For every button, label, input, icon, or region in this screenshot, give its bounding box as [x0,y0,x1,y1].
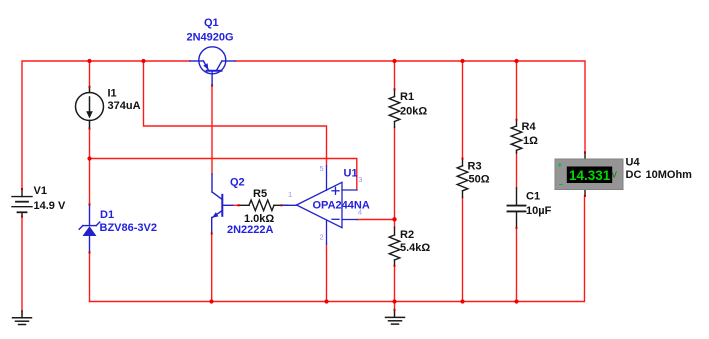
transistor Q2 [212,174,233,234]
node top rail R3 [460,59,464,63]
wire op-amp -input to feedback node [357,219,395,221]
svg-text:OPA244NA: OPA244NA [313,200,370,212]
svg-text:5.4kΩ: 5.4kΩ [400,242,430,254]
node bottom rail R3 [460,299,464,303]
node zener reference [87,156,91,160]
svg-text:+: + [558,161,563,170]
wire V+ feed to op-amp pin 5 [144,61,327,166]
svg-text:Q1: Q1 [204,17,219,29]
pin tick Q1 base [211,85,213,87]
svg-text:R3: R3 [468,161,482,173]
wire Q2 emitter to bottom rail [211,233,213,302]
wire top rail right of Q1 to multimeter top [235,61,585,153]
resistor R1 [389,89,400,128]
ground (left, battery) [13,311,32,325]
pin tick battery top [21,188,23,190]
node top rail R1 [392,59,396,63]
pin tick I1 bottom [89,128,91,130]
wire R1 bottom to feedback node [394,127,396,220]
svg-text:D1: D1 [100,209,114,221]
wire R2 bottom to bottom rail [394,266,396,302]
svg-text:14.9 V: 14.9 V [34,200,66,212]
wire Q1 base to Q2 collector [211,85,213,174]
pin tick R2 bottom [394,265,396,267]
pin tick meter top [584,152,586,154]
pin tick D1 top [89,204,91,206]
svg-text:1Ω: 1Ω [523,135,538,147]
node top rail I1 [87,59,91,63]
wire R3 top stub [462,61,464,158]
wire ground stub below bottom rail [394,302,396,311]
pin tick R3 top [462,158,464,160]
svg-text:R5: R5 [253,188,267,200]
svg-text:2: 2 [320,233,324,242]
wire feedback node to R2 [394,220,396,228]
zener diode D1 [79,204,100,253]
pin tick C1 bottom [516,227,518,229]
pin tick Q2 emitter [211,233,213,235]
resistor R4 [511,120,522,154]
wire R3 bottom stub [462,197,464,301]
wire I1 bottom to D1 top [89,128,91,204]
svg-text:1.0kΩ: 1.0kΩ [244,213,274,225]
svg-text:2N4920G: 2N4920G [187,32,234,44]
node bottom rail Q2 emitter [209,299,213,303]
svg-text:5: 5 [320,164,324,173]
battery V1 [12,189,32,217]
svg-text:20kΩ: 20kΩ [400,106,427,118]
wire Q2 base to R5 [232,204,240,206]
pin tick R5 left [238,204,240,206]
svg-text:10MOhm: 10MOhm [646,169,693,181]
svg-text:C1: C1 [526,191,540,203]
svg-text:I1: I1 [108,88,117,100]
svg-text:−: − [559,180,564,189]
resistor R2 [389,227,400,265]
pin tick D1 bottom [89,252,91,254]
wire C1 bottom stub [516,228,518,302]
wire D1 bottom down [89,252,91,302]
multimeter U4 [555,152,623,196]
node feedback R1 R2 [392,217,396,221]
pin tick op-amp output [281,204,283,206]
wire top-left rail and left rail [22,61,190,189]
pin tick ground stub [394,309,396,311]
node bottom rail op-amp pin 2 [324,299,328,303]
capacitor C1 [508,188,526,228]
current source I1 [76,87,104,129]
svg-text:10µF: 10µF [526,205,552,217]
svg-text:U1: U1 [344,168,358,180]
svg-text:R4: R4 [522,121,537,133]
svg-text:14.331: 14.331 [569,168,611,183]
svg-text:50Ω: 50Ω [469,174,490,186]
wire zener node to op-amp +input [90,159,357,190]
pin tick battery bottom [21,216,23,218]
svg-text:V: V [612,171,618,180]
wire R4 bottom to C1 top [516,153,518,188]
pin tick R1 top [394,89,396,91]
node top rail R4 [514,59,518,63]
node bottom rail C1 [514,299,518,303]
wire I1 top stub [89,61,91,87]
node bottom rail ground [392,299,396,303]
wire op-amp pin 2 to bottom rail [326,244,328,302]
wire bottom rail to multimeter bottom [90,196,585,302]
node top rail V+ feed [141,59,145,63]
svg-text:3: 3 [358,175,362,184]
svg-text:374uA: 374uA [108,100,141,112]
pin tick R4 top [516,119,518,121]
svg-text:2N2222A: 2N2222A [227,224,274,236]
wire R4 top stub [516,61,518,120]
pin tick meter bottom [584,195,586,197]
ground (bottom rail) [386,310,405,325]
svg-text:R1: R1 [400,91,414,103]
transistor Q1 [190,47,235,86]
svg-text:U4: U4 [626,156,641,168]
wire battery bottom to ground [21,216,23,312]
svg-text:Q2: Q2 [230,177,245,189]
wire R1 top stub [394,61,396,89]
op-amp U1 [282,166,358,244]
svg-text:DC: DC [626,169,642,181]
pin tick I1 top [89,86,91,88]
resistor R5 [239,200,288,211]
svg-text:R2: R2 [400,229,414,241]
resistor R3 [457,158,468,197]
svg-text:BZV86-3V2: BZV86-3V2 [100,222,157,234]
svg-text:1: 1 [288,190,292,199]
svg-text:V1: V1 [34,185,47,197]
